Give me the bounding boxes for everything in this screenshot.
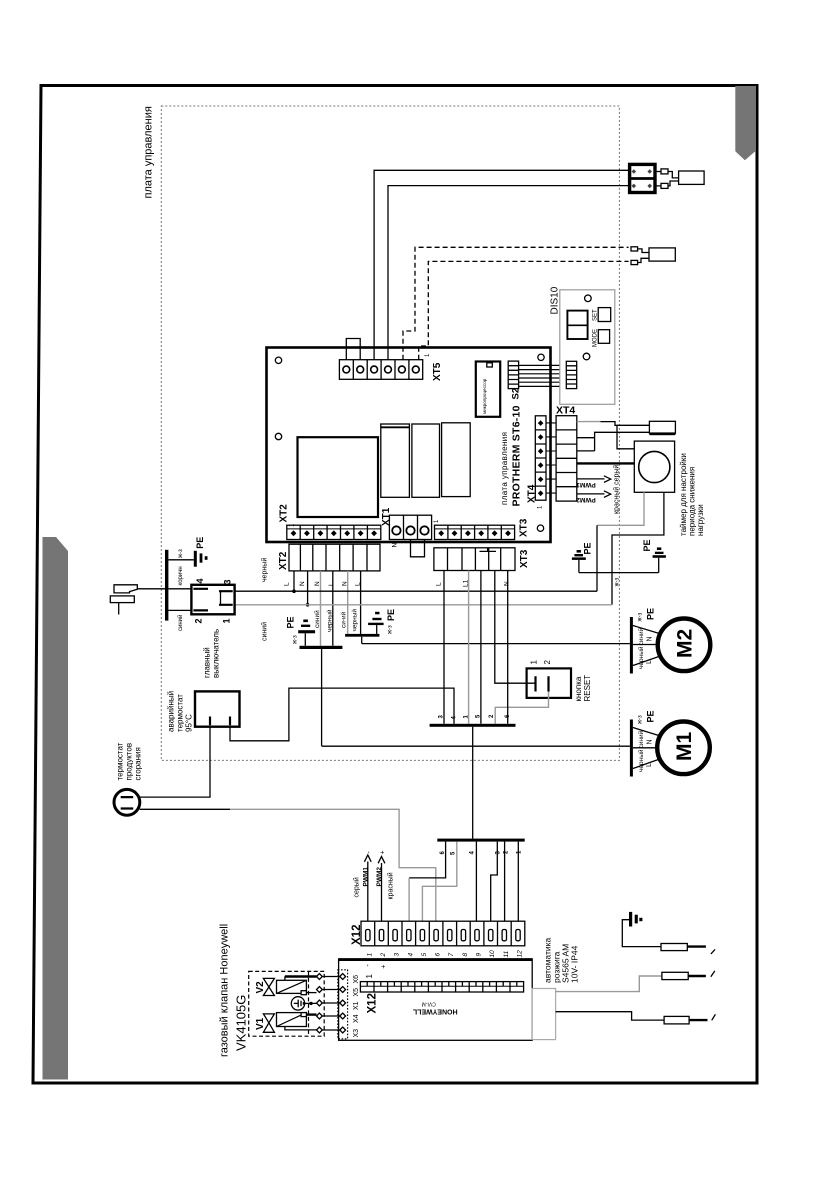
svg-text:4: 4 [195,578,205,583]
svg-text:черный: черный [637,749,645,772]
valve V1 symbol [255,1014,274,1032]
label siniy at bar [177,615,184,631]
svg-text:3: 3 [223,579,233,584]
wires bar to main switch [168,589,191,611]
relay 1 [381,424,410,497]
svg-text:1: 1 [366,953,373,957]
svg-text:XT1: XT1 [381,507,392,526]
svg-text:M1: M1 [673,732,696,761]
emergency thermostat 95C box [195,691,240,726]
wire XT4ext.1 grey to plug [577,422,650,426]
DIS10 MODE button [593,329,610,347]
Honeywell ignition automat box [339,959,533,1040]
page border frame [33,86,757,1084]
wire bar pin 4 to X12.9 [475,842,477,923]
svg-text:1: 1 [222,618,232,623]
M2 connection stubs [633,626,659,666]
relay 2 [412,424,440,497]
Honeywell X12 mating strip [360,982,523,992]
svg-text:V2: V2 [255,981,266,994]
coil V1 [277,1013,307,1027]
label avariyny termostat 95C [167,691,194,732]
svg-text:XT2: XT2 [278,551,289,570]
svg-text:L: L [436,582,443,586]
svg-text:синий: синий [261,622,269,641]
valve earth electrode circle [291,997,304,1010]
svg-text:N: N [504,581,511,586]
svg-text:синий: синий [637,627,645,645]
svg-text:X6: X6 [353,975,360,984]
motor M2 terminal bar [630,617,633,674]
coil V2 [277,980,307,994]
wire V1 top to X4 thick [306,1013,316,1015]
svg-text:N: N [392,543,399,548]
svg-text:коричн: коричн [178,566,184,585]
cable from bus to X12 bar [472,727,474,839]
svg-text:XT3: XT3 [519,549,530,568]
svg-text:ж-з: ж-з [638,715,644,724]
connector XT3 external [434,548,530,571]
timer box with knob [634,441,674,492]
text HONEYWELL CVI-M upside down [412,1001,457,1015]
svg-text:L: L [646,763,653,767]
DIS10 SET button [593,308,611,322]
main switch box [191,585,234,615]
control board PCB outline [267,348,551,543]
plug on XT4 wires [649,421,675,435]
svg-text:10: 10 [489,950,496,958]
dashed wire XT5.6 [419,261,629,359]
wire earth to X1 with junction [305,1002,317,1005]
svg-text:PWM1: PWM1 [363,867,370,887]
svg-text:DIS10: DIS10 [550,286,561,314]
wire plug to mains bar [137,588,165,590]
svg-text:S2: S2 [511,388,522,400]
automat side pins X6 X5 X1 X4 X3 [340,974,346,1033]
wire XT5.4 to service connector [388,186,630,360]
label timer for load reduction period [679,453,705,536]
svg-text:XT3: XT3 [519,518,530,537]
wire automat to spark plug 3 [556,1012,665,1020]
svg-text:микропроцессор: микропроцессор [482,378,487,414]
PWM1 output arrow grey wire [353,851,373,923]
svg-text:X3: X3 [353,1029,360,1038]
svg-text:ж-з: ж-з [614,577,620,586]
spark plug 2 [662,971,715,980]
svg-text:PWM2: PWM2 [576,496,596,503]
label cherny at XT2 [261,558,269,582]
board text PROTHERM ST6-10 [511,405,523,506]
svg-text:X5: X5 [353,988,360,997]
ribbon cable S2 to DIS10 [519,365,567,386]
wire ground to spark plug 1 [622,920,661,947]
wire bar pin 5 grey to X12.5 [422,842,456,923]
svg-text:главный: главный [203,647,212,678]
svg-text:2: 2 [543,660,552,665]
spark plug 3 [664,1014,715,1024]
mains line L black [235,590,597,592]
svg-text:ж-з: ж-з [178,549,184,558]
wire XT2.L down [292,571,296,593]
wire bar1 to M1 stem thick [321,649,323,746]
mains line N grey [235,604,612,606]
wire XT3.4 to bus pin 5 [480,571,482,724]
svg-text:XT2: XT2 [279,504,290,523]
PWM2 output arrow red wire [376,850,395,922]
svg-text:2: 2 [194,618,204,623]
svg-text:1: 1 [365,974,374,979]
svg-text:PE: PE [646,608,656,620]
wire XT2.N down [306,571,310,607]
X12 pin numbers [366,950,523,958]
wire smoke thermostat to emergency thermostat [140,727,210,797]
M2 wire labels [637,608,656,669]
svg-text:газовый клапан Honeywell: газовый клапан Honeywell [219,924,231,1057]
wire XT2 N grey to cable bar 1 [313,571,321,646]
svg-text:PE: PE [642,539,652,551]
XT2 cell labels L N N L N L [284,581,362,586]
svg-text:X1: X1 [353,1001,360,1010]
PWM1 arrow at XT4 [576,476,611,488]
wire automat to spark plug 2 grey [556,976,662,992]
svg-text:PROTHERM ST6-10: PROTHERM ST6-10 [511,405,523,506]
svg-text:красный серый: красный серый [613,465,621,514]
svg-text:X12: X12 [351,925,363,945]
svg-text:M2: M2 [674,629,697,658]
svg-text:5: 5 [421,953,428,957]
label glavny vyklyuchatel [203,629,221,678]
svg-text:продуктов: продуктов [125,743,134,781]
connector S2 on board [508,361,521,399]
dotted connector box X3-X6 [338,970,348,1039]
PE ground right of timer [642,539,666,572]
M1 wire labels [637,710,656,772]
scan shadow left [43,537,69,1080]
spark plug 1 [661,944,715,954]
wire XT2 N grey to cable bar 2 [340,571,348,634]
wire XT3.5 to reset button [495,571,536,684]
motor M1 terminal bar [630,720,633,777]
svg-text:PE: PE [195,537,205,549]
svg-text:PE: PE [386,609,396,621]
svg-text:PE: PE [583,542,593,554]
svg-text:L: L [646,660,653,664]
svg-text:6: 6 [435,953,442,957]
svg-text:ж-з: ж-з [293,635,299,644]
wire V2 top to X6 [285,976,317,980]
wire XT3.1 L to bus pin 3 [443,571,445,724]
PE ground on bar 2 [368,609,396,634]
motor M1 circle [657,722,710,775]
ground symbol bottom right [629,912,642,927]
wire XT5.3 to service connector [374,170,630,359]
wire reset to bus pin 2 grey [495,692,548,724]
PE ground left of timer [572,542,593,572]
valve side pins [317,974,323,1033]
labels X6 X5 X1 X4 X3 [353,975,360,1038]
wire zh-z to PE main [168,549,193,560]
label knopka RESET [574,675,592,702]
svg-text:плата управления: плата управления [500,432,509,505]
svg-text:V1: V1 [255,1017,266,1030]
wires valve pins to automat pins [322,977,340,1031]
svg-text:10V- IP44: 10V- IP44 [570,945,580,983]
wire bar pin 6 to X12.4 [409,842,446,923]
svg-text:черный: черный [261,558,269,582]
svg-text:XT5: XT5 [432,362,443,381]
svg-text:N: N [299,581,306,586]
links XT4 board to XT4 external [546,423,556,493]
svg-text:1: 1 [530,660,539,665]
relay 3 [442,423,471,497]
svg-text:синий: синий [177,615,184,631]
svg-text:синий: синий [313,610,321,628]
svg-text:12: 12 [517,950,524,958]
label avtomatika rozzhiga S4565 AM [543,937,580,983]
connector XT4 on board [527,416,547,509]
svg-text:HONEYWELL: HONEYWELL [412,1008,457,1015]
svg-text:L: L [284,582,291,586]
wire cable to M2 [362,643,630,645]
board text plata upravleniya [500,432,509,505]
cable bar 1 for M1 [300,646,343,649]
wire emergency thermostat to bus pin 4 [230,688,454,741]
label gas valve Honeywell VK4105G [219,924,249,1057]
gas valve dashed box [249,971,325,1036]
svg-text:серый: серый [353,877,361,897]
wire bar pin 1 to X12.12 [517,842,519,923]
switch pin labels [194,578,233,623]
svg-text:9: 9 [476,953,483,957]
X12 cable bar [437,839,524,842]
timer wire 1 grey [597,492,644,591]
mounting holes [275,354,544,531]
svg-text:черный: черный [326,609,334,632]
DIS10 display module box [550,286,615,404]
wire smoke thermostat to X12.6 [140,809,436,922]
terminal XT3 on board [434,518,530,539]
wire bar pin 2 to X12.11 [504,842,506,923]
svg-text:RESET: RESET [583,675,592,702]
wire V1 bottom to X3 [285,1027,317,1030]
label XT5 [425,353,443,381]
svg-text:сгорания: сгорания [134,747,143,780]
wire V2 bottom to X5 [306,992,316,994]
wire XT4ext.4 thick to timer [577,462,635,464]
scan shadow top-right [735,86,756,160]
microprocessor box on board [476,362,500,417]
svg-text:ж-з: ж-з [638,612,644,621]
svg-text:PE: PE [286,616,296,628]
big IC on board [298,437,379,517]
svg-text:аварийный: аварийный [167,691,176,732]
mains cable bar [165,550,168,621]
cable bar 2 for M2 [345,634,379,637]
wire branch to timer input 1 [617,425,634,449]
svg-text:PWM2: PWM2 [376,867,383,887]
svg-text:XT4: XT4 [527,484,538,503]
svg-text:+: + [380,850,387,854]
svg-text:CVI-M: CVI-M [422,1001,436,1007]
svg-text:термостат: термостат [176,694,185,732]
svg-text:N: N [647,636,654,641]
wire bar2 to M2 stem [361,637,363,644]
M1 connection stubs [633,728,658,769]
dashed wire XT5.5 [403,247,629,359]
svg-text:кнопка: кнопка [574,676,583,701]
svg-text:красный: красный [387,872,395,899]
svg-text:SET: SET [593,309,599,321]
PE ground main [194,537,208,567]
plug on service connector [655,169,704,189]
label termostat produktov sgoraniya [116,742,143,780]
svg-text:8: 8 [462,953,469,957]
XT3 cell labels [436,579,511,587]
DIS10 connector comb [566,361,576,388]
wire XT2 L black to cable bar 1 [326,571,334,646]
connector XT2 external [278,544,380,571]
svg-text:термостат: термостат [116,742,125,780]
label krasnyj seryj [613,465,621,514]
jumper loop XT5.1-XT5.2 [346,339,360,360]
svg-text:+: + [381,965,388,969]
terminal XT2 on board [279,504,381,540]
bus pin number labels [439,714,511,720]
wire XT3.6 N to bus pin 6 [507,571,509,724]
connector on dashed wires [631,247,675,265]
svg-text:X12: X12 [367,993,379,1013]
smoke products thermostat [114,789,140,815]
DIS10 pilot holes [583,295,591,360]
PE link wire zh-z [579,573,659,587]
terminal XT5 on board [339,360,422,380]
label korichn [178,566,184,585]
label N under XT1.1 [392,543,399,548]
label X12 on automat [367,993,379,1013]
terminal XT1 on board [381,507,432,539]
service connector block top right [630,164,655,192]
svg-text:L: L [328,582,335,586]
svg-text:4: 4 [407,953,414,957]
DIS10 digit displays [567,311,587,339]
motor M2 circle [658,619,711,672]
cable bus bar under XT3 [430,724,516,727]
svg-text:си-ий: си-ий [340,611,348,628]
labels minus 1 plus at strip [365,964,388,979]
label siniy left [261,622,269,641]
wire XT2 L black to cable bar 2 [351,571,361,634]
jumper XT1.2-XT1.3 [411,540,425,557]
timer wire 2 [612,492,664,605]
svg-text:N: N [647,739,654,744]
svg-text:XT4: XT4 [556,405,575,417]
svg-text:выключатель: выключатель [212,629,221,678]
svg-text:MODE: MODE [593,329,599,347]
dashed box: control panel boundary [161,106,619,760]
PWM2 arrow at XT4 [576,491,611,503]
svg-text:PE: PE [646,710,656,722]
link symbol on XT3 cells 4-5 [480,548,497,551]
svg-text:плата управления: плата управления [143,106,155,198]
svg-text:X4: X4 [353,1014,360,1023]
svg-text:95°C: 95°C [185,714,194,732]
svg-text:синий: синий [637,730,645,748]
reset button box [527,660,571,698]
label: plata upravleniya (control panel) [143,106,155,198]
svg-text:PWM1: PWM1 [576,481,596,488]
valve V2 symbol [255,978,274,995]
svg-text:черный: черный [351,609,359,632]
svg-text:нагрузки: нагрузки [696,504,705,536]
mains plug symbol [110,585,137,615]
X12 bar pin labels [440,850,523,855]
wires XT4ext.2 and XT4ext.3 to plug pin 2 [577,432,650,451]
svg-text:3: 3 [394,953,401,957]
svg-text:7: 7 [448,953,455,957]
wire cable to M1 thick [322,745,630,747]
svg-text:VK4105G: VK4105G [234,995,249,1051]
connector XT4 external [556,405,577,502]
svg-text:11: 11 [503,950,510,957]
wire XT3.3 L1 grey to bus pin 1 [468,571,470,724]
svg-text:ж-з: ж-з [388,625,394,634]
PE ground on bar 1 [286,616,316,645]
X12 cell slots [366,930,521,941]
svg-text:черный: черный [637,646,645,669]
Honeywell side box [532,989,555,1040]
svg-text:2: 2 [380,953,387,958]
connector X12 [351,921,525,946]
wire bar pin 3 to X12.10 [491,842,498,923]
